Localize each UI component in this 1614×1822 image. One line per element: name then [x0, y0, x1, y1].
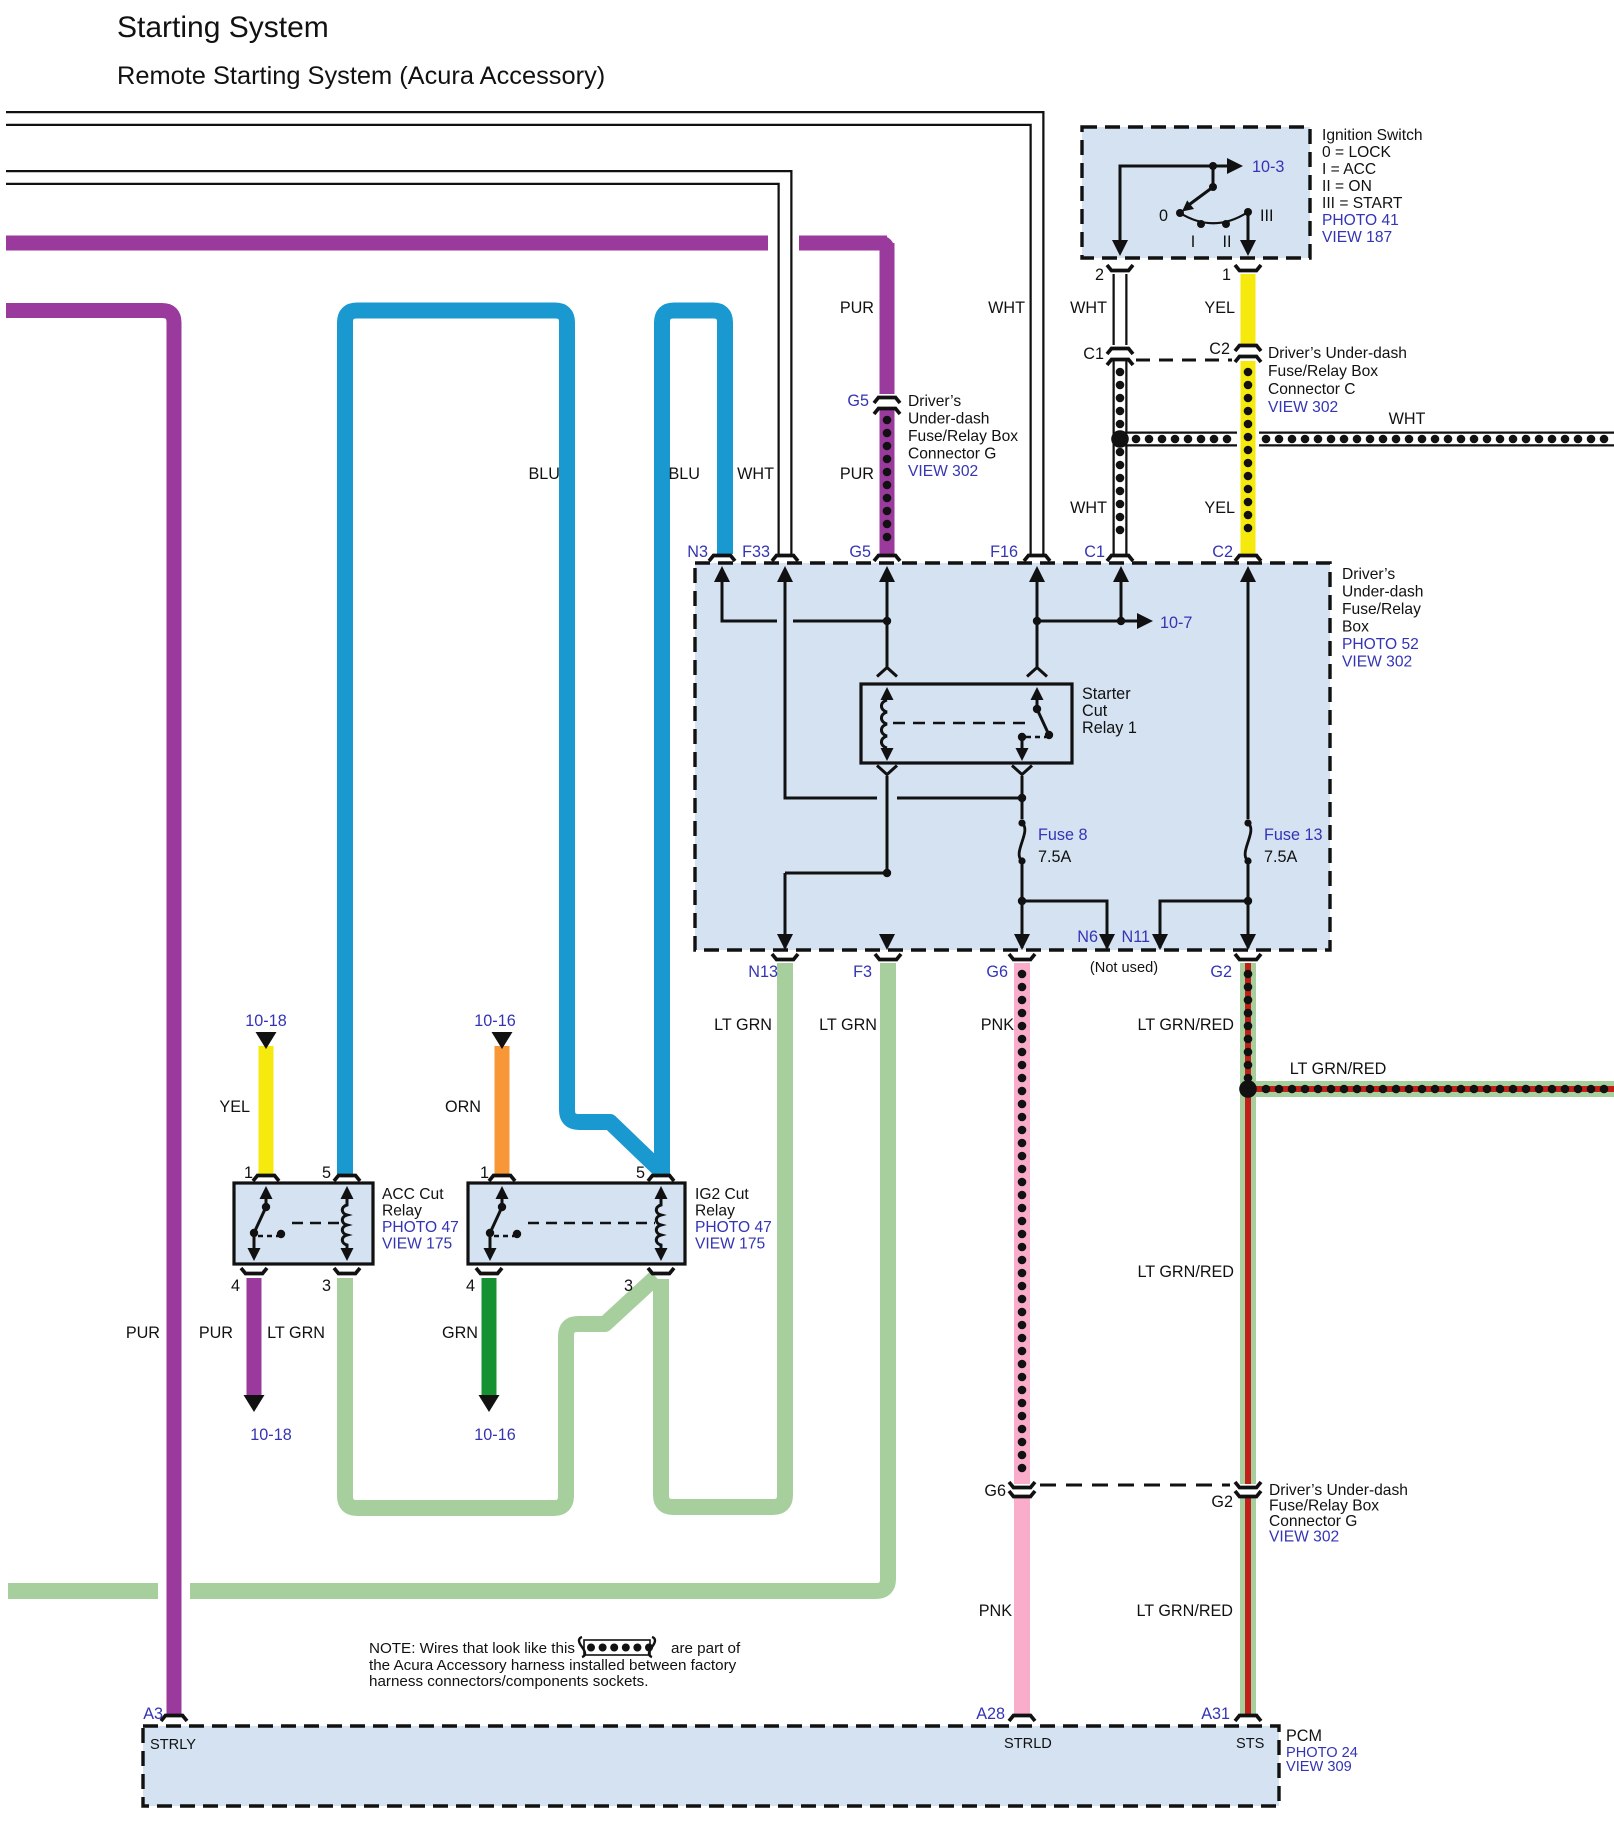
relay 1 mechanical link dashed — [893, 722, 1028, 725]
svg-text:LT GRN/RED: LT GRN/RED — [1136, 1602, 1233, 1620]
wire WHT dotted C1 connector to box pin C1 — [1113, 361, 1128, 554]
svg-text:A28: A28 — [976, 1705, 1005, 1723]
ignition switch box — [1082, 127, 1310, 258]
svg-text:the Acura Accessory harness in: the Acura Accessory harness installed be… — [369, 1657, 737, 1674]
svg-text:C2: C2 — [1212, 543, 1233, 561]
fuse/relay box — [695, 563, 1330, 950]
wire PUR ACC relay pin4 to 10-18 — [247, 1278, 262, 1397]
svg-text:VIEW 302: VIEW 302 — [908, 463, 978, 480]
svg-text:Fuse/Relay Box: Fuse/Relay Box — [1268, 363, 1378, 380]
wire PNK connector G6 to PCM A28 — [1014, 1497, 1030, 1714]
connector G2 (in-line) — [1235, 1482, 1261, 1488]
svg-text:PHOTO 47: PHOTO 47 — [382, 1219, 459, 1236]
svg-text:WHT: WHT — [737, 465, 774, 483]
svg-text:Box: Box — [1342, 619, 1369, 636]
wire YEL ignition pin1 to connector C2 — [1241, 274, 1256, 344]
svg-text:Connector G: Connector G — [908, 446, 996, 463]
wire WHT ignition pin2 to connector C1 — [1113, 274, 1128, 345]
svg-text:III: III — [1260, 207, 1274, 225]
ACC relay pin 5 — [334, 1176, 360, 1182]
svg-text:VIEW 175: VIEW 175 — [695, 1236, 766, 1253]
svg-text:LT GRN/RED: LT GRN/RED — [1137, 1016, 1234, 1034]
ACC relay link dashed — [292, 1222, 341, 1225]
wire WHT top horizontal to F16 — [6, 119, 1037, 555]
connector C1 (in-line) — [1107, 349, 1133, 355]
svg-text:I: I — [1191, 233, 1196, 251]
box pin F3 — [875, 954, 901, 960]
IG2 relay link dashed — [528, 1222, 655, 1225]
N13 branch — [785, 873, 887, 948]
svg-text:BLU: BLU — [669, 465, 701, 483]
connector C2 (in-line) — [1235, 346, 1261, 352]
svg-text:LT GRN/RED: LT GRN/RED — [1137, 1263, 1234, 1281]
ACC relay switch — [260, 1186, 273, 1199]
wire PUR horizontal to connector G5 — [6, 236, 887, 251]
svg-text:0 = LOCK: 0 = LOCK — [1322, 144, 1392, 161]
svg-text:STRLD: STRLD — [1004, 1736, 1052, 1752]
svg-text:LT GRN/RED: LT GRN/RED — [1290, 1060, 1387, 1078]
svg-text:harness connectors/components: harness connectors/components sockets. — [369, 1673, 648, 1690]
svg-text:10-16: 10-16 — [474, 1426, 515, 1444]
box pin F33 — [772, 556, 798, 562]
svg-text:1: 1 — [244, 1164, 253, 1182]
wire LT GRN ACC relay pin3 loop to IG2 relay pin3 — [345, 1277, 656, 1508]
svg-text:N11: N11 — [1122, 928, 1151, 946]
svg-text:VIEW 175: VIEW 175 — [382, 1236, 453, 1253]
wire PUR long left vertical to PCM A3 — [6, 311, 174, 1715]
svg-text:BLU: BLU — [529, 465, 561, 483]
svg-text:WHT: WHT — [988, 299, 1025, 317]
svg-text:VIEW 309: VIEW 309 — [1286, 1759, 1352, 1775]
IG2 relay pin 3 — [648, 1268, 674, 1274]
svg-text:ACC Cut: ACC Cut — [382, 1186, 444, 1203]
note symbol — [584, 1640, 650, 1655]
svg-text:1: 1 — [1222, 266, 1231, 284]
svg-text:5: 5 — [636, 1164, 645, 1182]
wire YEL ACC relay pin1 from 10-18 — [259, 1046, 274, 1174]
svg-text:Cut: Cut — [1082, 702, 1108, 720]
connector G6 (in-line) — [1009, 1482, 1035, 1488]
PCM pin A31 — [1235, 1716, 1261, 1722]
box pin G6 — [1009, 954, 1035, 960]
PCM pin A3 — [161, 1716, 187, 1722]
N11 branch — [1160, 901, 1248, 948]
wire YEL dotted C2 connector to box pin C2 — [1241, 361, 1256, 554]
svg-text:Starting System: Starting System — [117, 11, 329, 44]
ACC relay coil — [341, 1186, 354, 1199]
wire BLU loop IG2 relay pin5 to box pin N3 — [662, 311, 725, 1175]
svg-text:Connector C: Connector C — [1268, 381, 1356, 398]
svg-text:2: 2 — [1095, 266, 1104, 284]
svg-text:YEL: YEL — [219, 1098, 250, 1116]
svg-text:10-7: 10-7 — [1160, 614, 1192, 632]
wire LT GRN/RED dotted box pin G2 to junction — [1240, 963, 1256, 1484]
svg-text:YEL: YEL — [1204, 299, 1235, 317]
svg-text:PUR: PUR — [199, 1324, 233, 1342]
wire ORN IG2 relay pin1 from 10-16 — [495, 1046, 510, 1174]
svg-text:are part of: are part of — [671, 1640, 741, 1657]
wire BLU loop ACC relay pin5 to IG2 relay pin5 — [345, 311, 662, 1175]
svg-text:GRN: GRN — [442, 1324, 478, 1342]
svg-text:Fuse/Relay: Fuse/Relay — [1342, 601, 1421, 618]
svg-text:A3: A3 — [143, 1705, 163, 1723]
svg-text:Driver’s Under-dash: Driver’s Under-dash — [1269, 1482, 1408, 1499]
svg-text:Remote Starting System (Acura: Remote Starting System (Acura Accessory) — [117, 62, 605, 90]
svg-text:(Not used): (Not used) — [1090, 960, 1158, 976]
svg-text:10-16: 10-16 — [474, 1012, 515, 1030]
wire WHT dotted horizontal from junction to right edge — [1120, 432, 1237, 447]
internal wiring C1 — [1120, 572, 1123, 621]
svg-text:III = START: III = START — [1322, 195, 1403, 212]
internal wiring C2 / fuse 13 — [1247, 572, 1250, 819]
svg-text:N3: N3 — [687, 543, 708, 561]
svg-text:G5: G5 — [849, 543, 871, 561]
svg-text:Driver’s: Driver’s — [908, 393, 961, 410]
svg-text:C1: C1 — [1084, 543, 1105, 561]
wire WHT second horizontal to F33 — [6, 178, 785, 555]
svg-text:PHOTO 52: PHOTO 52 — [1342, 636, 1419, 653]
wire GRN IG2 relay pin4 to 10-16 — [482, 1278, 497, 1397]
svg-text:7.5A: 7.5A — [1038, 848, 1072, 866]
internal wiring N3 branch — [722, 572, 887, 621]
svg-text:PUR: PUR — [840, 465, 874, 483]
svg-text:LT GRN: LT GRN — [819, 1016, 877, 1034]
svg-text:Driver’s: Driver’s — [1342, 566, 1395, 583]
svg-text:WHT: WHT — [1389, 410, 1426, 428]
node 10-18 bottom — [244, 1395, 265, 1412]
svg-text:10-18: 10-18 — [245, 1012, 286, 1030]
svg-text:VIEW 302: VIEW 302 — [1342, 654, 1412, 671]
svg-text:ORN: ORN — [445, 1098, 481, 1116]
svg-text:10-18: 10-18 — [250, 1426, 291, 1444]
svg-text:YEL: YEL — [1204, 499, 1235, 517]
svg-text:G6: G6 — [984, 1482, 1006, 1500]
svg-text:N13: N13 — [748, 963, 778, 981]
connector G dashed link — [1040, 1484, 1230, 1487]
svg-text:1: 1 — [480, 1164, 489, 1182]
svg-text:4: 4 — [231, 1277, 240, 1295]
IG2 relay switch — [496, 1186, 509, 1199]
svg-text:0: 0 — [1159, 207, 1168, 225]
relay 1 coil — [881, 687, 894, 700]
svg-text:G2: G2 — [1210, 963, 1232, 981]
ignition switch internal wiring — [1120, 166, 1236, 252]
svg-text:4: 4 — [466, 1277, 475, 1295]
connector C dashed link — [1136, 359, 1232, 362]
svg-text:VIEW 302: VIEW 302 — [1268, 399, 1338, 416]
svg-text:PCM: PCM — [1286, 1727, 1322, 1745]
svg-text:I = ACC: I = ACC — [1322, 161, 1376, 178]
IG2 cut relay box — [468, 1183, 685, 1264]
box pin G5 — [874, 556, 900, 562]
PCM box — [143, 1726, 1279, 1806]
svg-text:C2: C2 — [1209, 340, 1230, 358]
ACC relay pin 3 — [334, 1268, 360, 1274]
svg-text:WHT: WHT — [1070, 299, 1107, 317]
box pin C1 — [1107, 556, 1133, 562]
svg-text:Fuse/Relay Box: Fuse/Relay Box — [1269, 1498, 1379, 1515]
svg-text:LT GRN: LT GRN — [714, 1016, 772, 1034]
svg-text:VIEW 187: VIEW 187 — [1322, 229, 1392, 246]
svg-text:NOTE: Wires that look like thi: NOTE: Wires that look like this — [369, 1640, 575, 1657]
ACC cut relay box — [234, 1183, 373, 1264]
svg-text:Fuse 8: Fuse 8 — [1038, 826, 1088, 844]
svg-text:Relay 1: Relay 1 — [1082, 719, 1137, 737]
svg-text:STS: STS — [1236, 1736, 1265, 1752]
svg-text:II: II — [1223, 233, 1232, 251]
svg-text:3: 3 — [624, 1277, 633, 1295]
svg-text:PNK: PNK — [981, 1016, 1014, 1034]
svg-text:PHOTO 41: PHOTO 41 — [1322, 212, 1399, 229]
wire LT GRN box pin N13 to IG2 relay pin3 — [661, 963, 785, 1507]
svg-text:Ignition Switch: Ignition Switch — [1322, 127, 1423, 144]
svg-text:Under-dash: Under-dash — [1342, 584, 1423, 601]
svg-text:A31: A31 — [1201, 1705, 1230, 1723]
svg-text:PNK: PNK — [979, 1602, 1012, 1620]
svg-text:Under-dash: Under-dash — [908, 411, 989, 428]
junction node WHT — [1111, 430, 1129, 448]
relay 1 switch — [1031, 687, 1044, 700]
node 10-16 bottom — [479, 1395, 500, 1412]
svg-text:PHOTO 47: PHOTO 47 — [695, 1219, 772, 1236]
svg-text:G5: G5 — [847, 392, 869, 410]
starter cut relay 1 — [861, 684, 1072, 763]
wire PUR dotted (accessory) G5 connector to box pin G5 — [880, 410, 895, 554]
wire LT GRN/RED connector G2 to PCM A31 — [1240, 1497, 1256, 1714]
ACC relay pin 1 — [253, 1176, 279, 1182]
svg-text:Fuse/Relay Box: Fuse/Relay Box — [908, 428, 1018, 445]
ACC relay pin 4 — [241, 1268, 267, 1274]
box pin C2 — [1235, 556, 1261, 562]
PCM pin A28 — [1009, 1716, 1035, 1722]
svg-text:3: 3 — [322, 1277, 331, 1295]
svg-text:II = ON: II = ON — [1322, 178, 1372, 195]
svg-text:F16: F16 — [990, 543, 1018, 561]
svg-text:10-3: 10-3 — [1252, 158, 1284, 176]
svg-text:IG2 Cut: IG2 Cut — [695, 1186, 749, 1203]
internal wiring F16 to 10-7 — [1037, 572, 1146, 668]
IG2 relay pin 1 — [489, 1176, 515, 1182]
svg-text:F3: F3 — [853, 963, 872, 981]
fuse 13 — [1244, 819, 1251, 826]
internal wiring G5 coil feed — [886, 572, 889, 668]
box pin N3 — [709, 556, 735, 562]
svg-text:WHT: WHT — [1070, 499, 1107, 517]
svg-text:Starter: Starter — [1082, 685, 1131, 703]
IG2 relay coil — [655, 1186, 668, 1199]
svg-text:Connector G: Connector G — [1269, 1513, 1357, 1530]
svg-text:VIEW 302: VIEW 302 — [1269, 1529, 1339, 1546]
svg-text:STRLY: STRLY — [150, 1737, 196, 1753]
svg-text:F33: F33 — [742, 543, 770, 561]
svg-text:G6: G6 — [986, 963, 1008, 981]
connector G5 (in-line) — [874, 398, 900, 404]
svg-text:C1: C1 — [1083, 345, 1104, 363]
IG2 relay pin 5 — [648, 1176, 674, 1182]
svg-text:Relay: Relay — [382, 1203, 422, 1220]
svg-text:PUR: PUR — [840, 299, 874, 317]
svg-text:Fuse 13: Fuse 13 — [1264, 826, 1323, 844]
internal wiring below relay / fuse 8 — [877, 766, 897, 775]
internal wiring F33 to switch output — [785, 572, 1022, 798]
svg-text:PUR: PUR — [126, 1324, 160, 1342]
box pin G2 — [1235, 954, 1261, 960]
IG2 relay pin 4 — [476, 1268, 502, 1274]
box pin F16 — [1024, 556, 1050, 562]
svg-text:N6: N6 — [1077, 928, 1098, 946]
svg-text:LT GRN: LT GRN — [267, 1324, 325, 1342]
wire LT GRN/RED horizontal from junction to right edge — [1248, 1081, 1614, 1097]
wire PNK dotted box pin G6 to connector G6 — [1014, 963, 1030, 1484]
svg-text:7.5A: 7.5A — [1264, 848, 1298, 866]
box pin N13 — [772, 954, 798, 960]
svg-text:5: 5 — [322, 1164, 331, 1182]
svg-text:G2: G2 — [1211, 1493, 1233, 1511]
svg-text:Driver’s Under-dash: Driver’s Under-dash — [1268, 345, 1407, 362]
N6 branch — [1022, 901, 1107, 948]
wire LT GRN box pin F3 long line to left edge — [8, 963, 888, 1591]
fuse 8 — [1018, 819, 1025, 826]
junction node LT GRN/RED — [1239, 1080, 1257, 1098]
svg-text:Relay: Relay — [695, 1203, 735, 1220]
